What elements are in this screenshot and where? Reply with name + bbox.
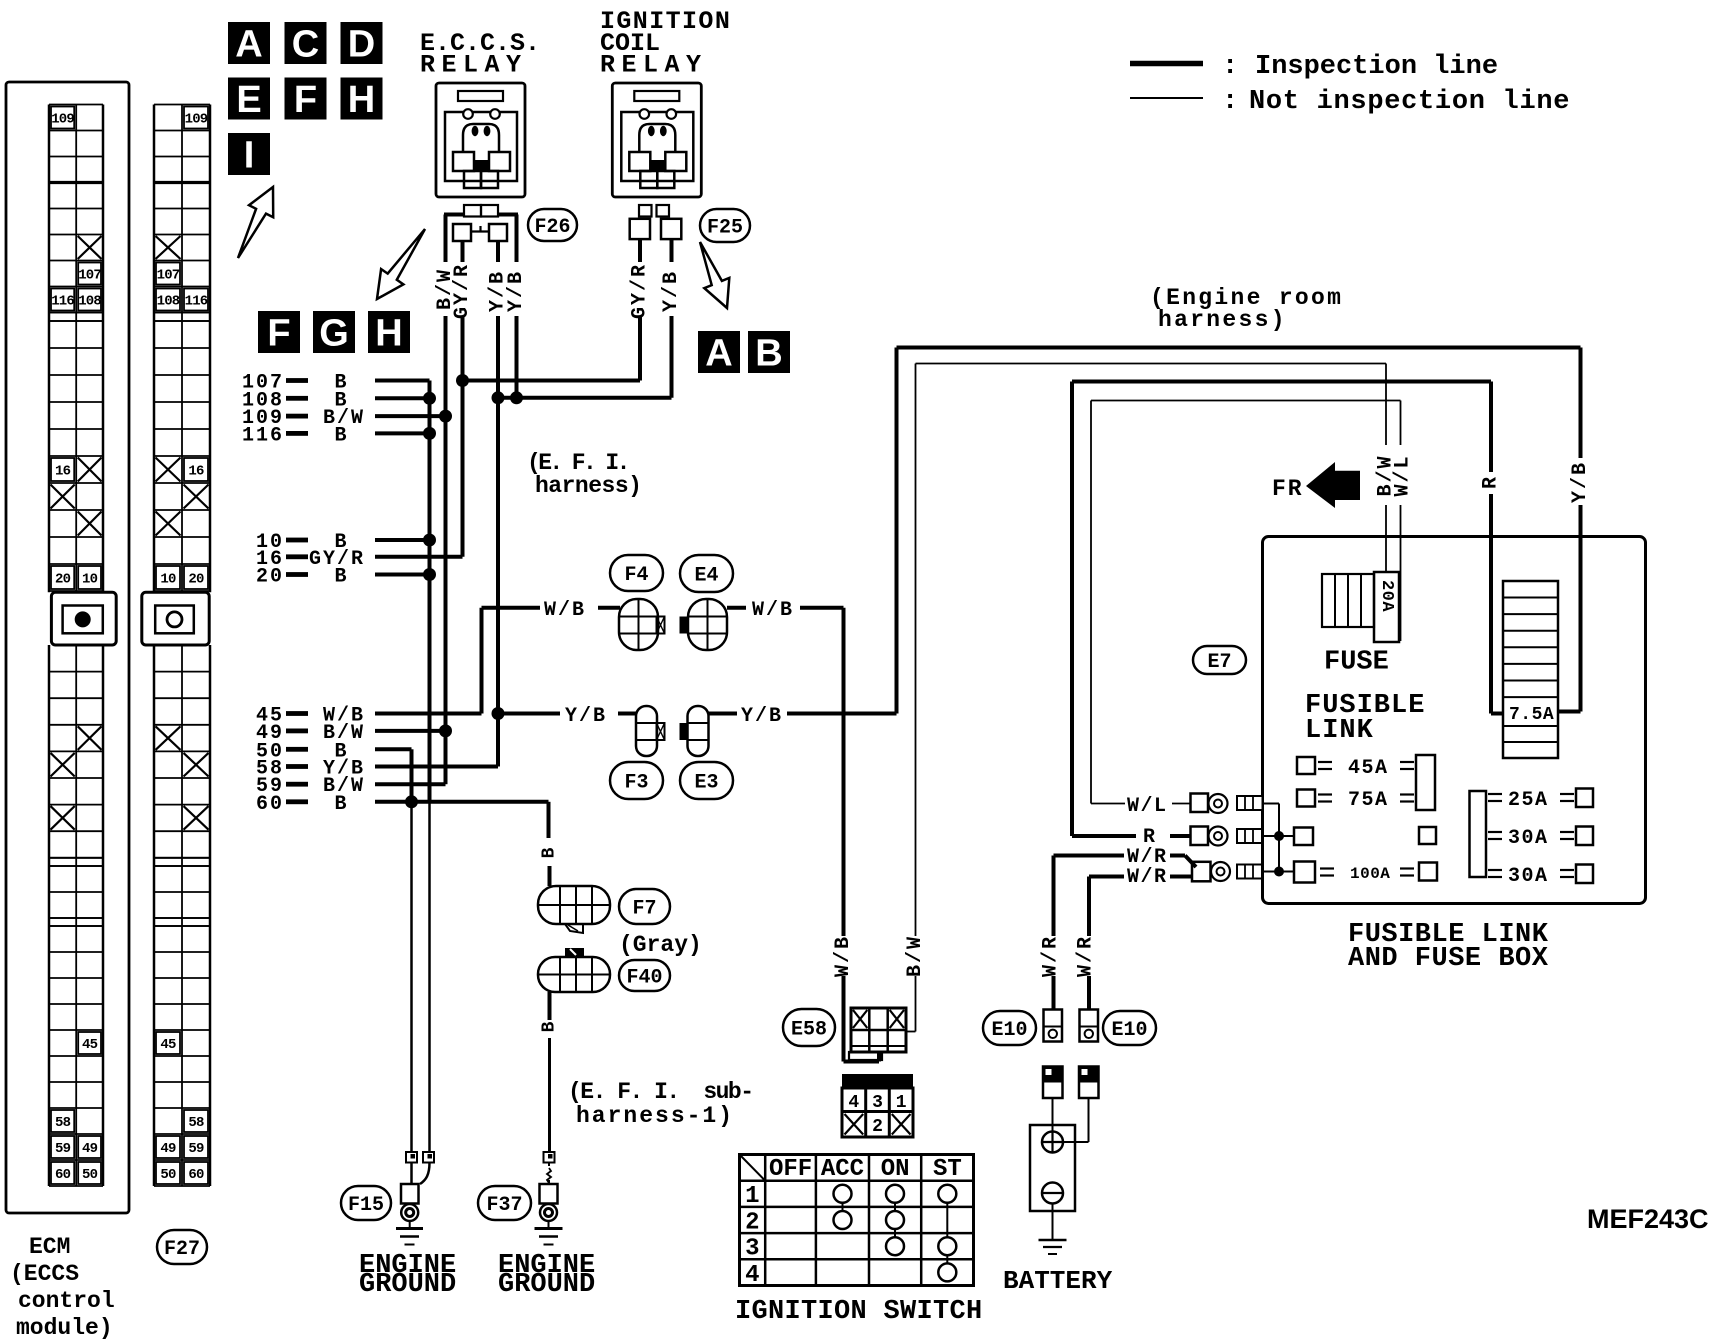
wire W/R battery 1 [1052, 856, 1056, 937]
battery box [1030, 1125, 1075, 1211]
svg-text:GY/R: GY/R [451, 263, 474, 319]
connector label E7 [1193, 646, 1246, 674]
svg-text:F37: F37 [486, 1194, 522, 1217]
svg-text:59: 59 [188, 1141, 204, 1157]
svg-text:MEF243C: MEF243C [1587, 1204, 1709, 1234]
svg-text:4: 4 [745, 1262, 759, 1289]
wire stub from E4 [727, 606, 746, 610]
battery terminal 2 [1080, 1010, 1099, 1042]
wire pin60 to F7 [547, 802, 551, 838]
svg-text:ACC: ACC [821, 1156, 864, 1183]
view box I [228, 133, 270, 175]
svg-text:50: 50 [160, 1167, 176, 1183]
svg-text:45: 45 [160, 1037, 176, 1053]
svg-text:ON: ON [881, 1156, 910, 1183]
ignition switch connector 431/X2X [842, 1074, 913, 1089]
connector E58 tab [851, 1045, 906, 1047]
connector label F4 [610, 555, 663, 591]
svg-text:1: 1 [896, 1093, 907, 1113]
svg-text:2: 2 [872, 1117, 883, 1137]
wire B bus vertical [428, 381, 432, 802]
junction GY/R [456, 374, 469, 387]
svg-text:107: 107 [78, 268, 101, 284]
svg-text:GROUND: GROUND [498, 1270, 595, 1300]
ignition switch contacts [834, 1185, 852, 1203]
wire B/W ignition vertical [915, 364, 917, 937]
svg-text:30A: 30A [1508, 827, 1549, 850]
connector label E3 [680, 762, 733, 799]
svg-text:GY/R: GY/R [629, 263, 652, 319]
battery wires [1052, 1098, 1054, 1132]
svg-text:W/L: W/L [1392, 454, 1415, 496]
svg-text:60: 60 [256, 793, 284, 816]
wire W/R battery 2 [1087, 877, 1091, 937]
svg-text:OFF: OFF [769, 1156, 812, 1183]
svg-text:(Gray): (Gray) [619, 932, 702, 958]
svg-text:58: 58 [188, 1115, 204, 1131]
battery clamp 1 [1043, 1067, 1063, 1099]
fusible link and fuse box outline [1263, 537, 1646, 904]
svg-text:60: 60 [188, 1167, 204, 1183]
junction Y/B 1 [492, 391, 505, 404]
wire GY/R vertical [461, 316, 465, 557]
svg-text:(ECCS: (ECCS [10, 1261, 79, 1287]
connector label E4 [680, 555, 733, 592]
svg-text:108: 108 [157, 294, 180, 310]
fusible link 45A [1297, 757, 1315, 774]
view boxes A B (right) [698, 331, 740, 373]
inline connector at F15 wire 1 [406, 1152, 417, 1163]
svg-text:E3: E3 [694, 772, 718, 795]
svg-text:E10: E10 [1111, 1019, 1147, 1042]
svg-text:Y/B: Y/B [565, 705, 607, 728]
connector F3 symbol [636, 706, 657, 756]
svg-text:FUSE: FUSE [1324, 648, 1389, 678]
svg-text:109: 109 [51, 112, 74, 128]
svg-text:2: 2 [745, 1209, 759, 1236]
ground terminal F15 [410, 1163, 413, 1185]
svg-text:AND FUSE BOX: AND FUSE BOX [1348, 944, 1549, 974]
junction 20 [423, 568, 436, 581]
relay E.C.C.S. RELAY (F26) [436, 83, 525, 197]
svg-text:G: G [319, 313, 349, 355]
relay connector F25 pins [639, 205, 652, 217]
svg-text:B: B [540, 847, 560, 858]
legend not inspection line [1130, 97, 1203, 99]
connector F27 label [157, 1230, 207, 1264]
svg-text:RELAY: RELAY [420, 51, 528, 80]
battery plus terminal [1042, 1132, 1063, 1153]
junction 108 [423, 392, 436, 405]
svg-text:107: 107 [157, 268, 180, 284]
svg-text:100A: 100A [1350, 865, 1390, 883]
wire stub to F4 [598, 606, 620, 610]
svg-text:harness): harness) [535, 473, 641, 499]
fusible link holder left [1416, 755, 1435, 810]
svg-text:49: 49 [160, 1141, 176, 1157]
svg-text:E7: E7 [1207, 651, 1231, 674]
wire stub to F3 [618, 712, 637, 716]
svg-text:harness): harness) [1158, 307, 1287, 333]
svg-text:F: F [294, 79, 317, 121]
svg-text:B: B [334, 793, 348, 816]
svg-text:FR: FR [1272, 476, 1304, 502]
svg-text:Y/B: Y/B [505, 270, 528, 312]
svg-text:4: 4 [848, 1093, 859, 1113]
connector label F26 [528, 209, 577, 241]
svg-text:H: H [375, 313, 402, 355]
svg-text:108: 108 [78, 294, 101, 310]
svg-text:H: H [348, 79, 375, 121]
wire B/W ignition horizontal [916, 363, 1387, 365]
ground terminal F37 [548, 1163, 550, 1167]
svg-text:116: 116 [51, 294, 74, 310]
view boxes E F H [228, 78, 270, 120]
wire Y/B vertical 2 [515, 316, 519, 398]
connector F4 symbol [619, 599, 658, 650]
svg-text::: : [1222, 87, 1238, 117]
inline connector at F15 wire 2 [423, 1152, 434, 1163]
battery minus terminal [1042, 1183, 1063, 1204]
svg-text:B/W: B/W [904, 935, 927, 977]
battery terminal 1 [1044, 1010, 1063, 1042]
connector F7 pocket [565, 924, 583, 933]
connector label F37 [478, 1186, 531, 1220]
junction 60 [405, 795, 418, 808]
wire Y/B coil vertical [670, 316, 674, 398]
wire pin50 down [410, 749, 414, 802]
svg-text:F15: F15 [348, 1194, 384, 1217]
svg-text:16: 16 [55, 464, 71, 480]
wire B/W vertical [444, 316, 448, 731]
junction 45 Y/B [492, 707, 505, 720]
svg-text:W/R: W/R [1040, 935, 1063, 977]
wire W/B to ignition switch [800, 606, 844, 610]
fusible link 75A [1297, 790, 1315, 807]
wire Y/B to fuse box [787, 712, 897, 716]
connector label E58 [783, 1009, 835, 1046]
connector label F25 [700, 209, 750, 242]
terminal R [1191, 827, 1209, 846]
svg-text:B: B [334, 424, 348, 447]
fusible link 100A [1294, 862, 1315, 883]
svg-text:20: 20 [256, 566, 284, 589]
svg-text:Inspection line: Inspection line [1255, 52, 1498, 82]
junction 116 [423, 427, 436, 440]
connector E4 symbol [680, 617, 689, 634]
connector F40 capsule [538, 957, 610, 992]
svg-text:116: 116 [242, 424, 284, 447]
connector label F15 [341, 1186, 391, 1220]
svg-text:A: A [705, 333, 732, 375]
svg-text:30A: 30A [1508, 865, 1549, 888]
fuse 25A [1488, 793, 1502, 795]
svg-text:I: I [244, 135, 255, 177]
svg-text:W/L: W/L [1127, 795, 1168, 818]
fusible link holder right [1470, 791, 1487, 877]
svg-text:W/R: W/R [1127, 866, 1168, 889]
svg-text:Y/B: Y/B [660, 270, 683, 312]
svg-text:E: E [236, 79, 261, 121]
connector E58 grid [851, 1008, 906, 1052]
svg-text:LINK: LINK [1305, 716, 1374, 746]
svg-text:116: 116 [185, 294, 208, 310]
svg-text:GROUND: GROUND [359, 1270, 456, 1300]
battery clamp 2 [1079, 1067, 1099, 1099]
svg-text:50: 50 [82, 1167, 98, 1183]
svg-text:20: 20 [55, 572, 71, 588]
connector E3 symbol [680, 723, 689, 740]
svg-text:harness-1): harness-1) [576, 1103, 734, 1129]
svg-text:RELAY: RELAY [600, 51, 708, 80]
junction 109 B/W [439, 410, 452, 423]
svg-text:45: 45 [82, 1037, 98, 1053]
svg-text:D: D [348, 24, 375, 66]
wire GY/R link horizontal [463, 379, 641, 383]
svg-text:16: 16 [188, 464, 204, 480]
svg-text:Not inspection line: Not inspection line [1249, 87, 1570, 117]
svg-text:20A: 20A [1377, 580, 1396, 612]
wire R loop [1072, 380, 1491, 384]
svg-text:F7: F7 [632, 898, 656, 921]
wire Y/B row segment [498, 712, 560, 716]
svg-text:B: B [755, 333, 782, 375]
svg-text:R: R [1480, 477, 1503, 489]
svg-text:Y/B: Y/B [1569, 461, 1592, 503]
svg-text:F4: F4 [624, 564, 648, 587]
svg-text:(E. F. I. sub-: (E. F. I. sub- [568, 1079, 753, 1105]
wire to F37 [548, 1038, 551, 1151]
svg-text:W/B: W/B [752, 599, 794, 622]
view boxes F G H (lower) [258, 311, 300, 353]
connector grid ECM right (harness view F27) [153, 105, 156, 593]
connector label F40 [619, 960, 670, 991]
svg-text:3: 3 [745, 1236, 759, 1263]
connector grid ECM left (pin view) [48, 105, 51, 593]
wire to F7 capsule [548, 866, 552, 886]
svg-text:E10: E10 [991, 1019, 1027, 1042]
wire GY/R coil vertical [638, 316, 642, 381]
connector label E10 left [983, 1011, 1036, 1045]
svg-text:B: B [334, 566, 348, 589]
svg-text:75A: 75A [1348, 789, 1389, 812]
arrow down-right [700, 242, 729, 308]
fuse 30A upper [1488, 831, 1502, 833]
svg-text::: : [1222, 52, 1238, 82]
view boxes A C D [228, 22, 270, 64]
ignition switch table [740, 1155, 974, 1286]
svg-text:59: 59 [55, 1141, 71, 1157]
junction Y/B 2 [510, 391, 523, 404]
svg-text:B: B [540, 1021, 560, 1032]
arrow down-left [377, 229, 425, 299]
svg-text:F27: F27 [164, 1238, 200, 1261]
legend inspection line [1130, 61, 1203, 67]
junction 49 B/W [439, 724, 452, 737]
inline connector at F37 wire [544, 1152, 555, 1163]
svg-text:Y/B: Y/B [741, 705, 783, 728]
svg-text:3: 3 [872, 1093, 883, 1113]
svg-text:10: 10 [160, 572, 176, 588]
fuse box internal bus [1263, 803, 1280, 805]
svg-text:F3: F3 [624, 772, 648, 795]
svg-text:45A: 45A [1348, 757, 1389, 780]
svg-text:58: 58 [55, 1115, 71, 1131]
ECM connector key (left, solid dot) [51, 592, 116, 645]
wire stub from E3 [709, 712, 738, 716]
relay connector F26 pins [464, 205, 481, 217]
ECM outline box [6, 82, 129, 1213]
svg-text:F25: F25 [707, 217, 743, 240]
wire F40 down [548, 992, 552, 1020]
fuse 7.5A block [1503, 581, 1558, 758]
relay IGNITION COIL RELAY (F25) [612, 83, 701, 197]
connector label E10 right [1103, 1011, 1156, 1045]
wire Y/B link horizontal [498, 396, 672, 400]
wire Y/B vertical 1 [496, 316, 500, 767]
svg-text:W/R: W/R [1075, 935, 1098, 977]
svg-text:C: C [292, 24, 319, 66]
svg-text:10: 10 [82, 572, 98, 588]
connector label F3 [610, 762, 663, 799]
svg-text:BATTERY: BATTERY [1003, 1266, 1113, 1296]
svg-text:ECM: ECM [29, 1234, 70, 1260]
arrow up-right [238, 187, 273, 258]
svg-text:20: 20 [188, 572, 204, 588]
svg-text:49: 49 [82, 1141, 98, 1157]
svg-text:control: control [18, 1288, 115, 1314]
wire W/B jog from pin45 [480, 608, 484, 714]
ECM connector key (right, open circle) [142, 592, 209, 645]
svg-text:7.5A: 7.5A [1509, 705, 1554, 725]
connector F40 tab [565, 948, 584, 957]
svg-text:F26: F26 [534, 216, 570, 239]
svg-text:25A: 25A [1508, 789, 1549, 812]
svg-text:module): module) [16, 1315, 113, 1341]
fuse 20A block [1322, 574, 1374, 627]
svg-text:60: 60 [55, 1167, 71, 1183]
connector F7 capsule [538, 886, 610, 924]
connector label F7 [619, 889, 670, 924]
FR arrow [1306, 462, 1360, 508]
svg-text:E58: E58 [791, 1019, 827, 1042]
svg-text:109: 109 [185, 112, 208, 128]
svg-text:F40: F40 [626, 967, 662, 990]
fusible link blank row [1294, 828, 1313, 846]
junction 10 [423, 534, 436, 547]
svg-text:W/B: W/B [544, 599, 586, 622]
fuse 30A lower [1488, 869, 1502, 871]
battery ground [1052, 1204, 1054, 1241]
svg-text:ST: ST [933, 1156, 962, 1183]
svg-text:W/B: W/B [832, 935, 855, 977]
svg-text:1: 1 [745, 1183, 759, 1210]
svg-text:F: F [267, 313, 290, 355]
svg-text:E4: E4 [694, 565, 718, 588]
svg-text:IGNITION SWITCH: IGNITION SWITCH [735, 1297, 983, 1327]
wire W/L loop [1091, 400, 1401, 402]
svg-text:A: A [235, 24, 262, 66]
